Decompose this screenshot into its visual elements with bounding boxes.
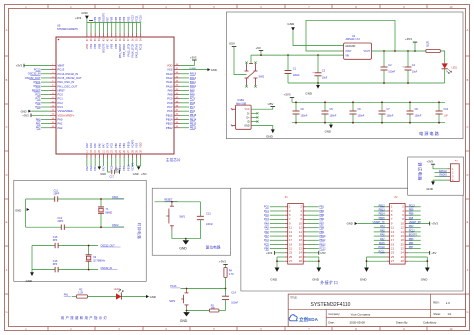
svg-text:PC1: PC1 — [58, 97, 64, 101]
svg-text:PA12: PA12 — [166, 76, 173, 80]
wire P1 pin 22 PC12 — [306, 248, 319, 250]
svg-text:GND: GND — [287, 22, 295, 26]
capacitor C15 — [54, 243, 56, 248]
svg-text:AMS1117-3.3: AMS1117-3.3 — [346, 38, 361, 41]
svg-text:8MHZ: 8MHZ — [106, 212, 113, 215]
svg-text:LED1: LED1 — [451, 67, 458, 70]
ground cap bank — [330, 123, 332, 125]
svg-text:D: D — [6, 173, 8, 177]
wire OSC2 to mcu — [41, 85, 50, 87]
svg-text:VCAP1: VCAP1 — [130, 139, 134, 148]
svg-text:GND: GND — [211, 68, 217, 72]
wire SW2 to +5V rail — [250, 55, 252, 63]
svg-text:GND: GND — [421, 278, 429, 282]
svg-text:+3V3: +3V3 — [115, 169, 121, 171]
svg-text:PB5: PB5 — [319, 214, 324, 217]
svg-text:ADJ/GND: ADJ/GND — [345, 45, 355, 48]
svg-text:PD2: PD2 — [126, 16, 130, 22]
svg-text:E: E — [467, 220, 469, 224]
svg-text:100nF: 100nF — [231, 302, 238, 305]
svg-text:32.768KHz: 32.768KHz — [93, 260, 106, 263]
wire P1 pin 7 PC3 — [270, 218, 285, 220]
wire P1 pin 6 PB5 — [306, 214, 319, 216]
crystal X2 32.768KHz — [88, 246, 90, 255]
svg-text:10uF: 10uF — [412, 71, 418, 74]
svg-text:GND: GND — [81, 11, 87, 15]
wire top pin bus — [87, 22, 141, 24]
wire P1 ground right — [306, 256, 319, 258]
svg-text:PB6: PB6 — [110, 43, 114, 48]
wire P1 pin 19 PC5 — [270, 243, 285, 245]
svg-text:VDD: VDD — [85, 44, 89, 50]
wire SWDIO net — [435, 175, 448, 177]
wire +3V3 to R4 — [225, 264, 227, 267]
svg-text:复位电路: 复位电路 — [206, 244, 221, 249]
svg-text:PA11: PA11 — [166, 80, 173, 84]
wire P1 pin 11 PA5 — [270, 227, 285, 229]
svg-text:PB7: PB7 — [106, 43, 110, 48]
svg-text:PA12: PA12 — [190, 76, 197, 80]
svg-text:A: A — [6, 28, 8, 32]
svg-text:PC7: PC7 — [167, 105, 173, 109]
svg-text:PB15: PB15 — [190, 113, 197, 117]
wire OSC1 to mcu — [41, 81, 50, 83]
svg-text:+3V3: +3V3 — [141, 174, 147, 176]
svg-text:PA13: PA13 — [190, 72, 197, 76]
usb data stubs — [251, 112, 257, 114]
svg-text:Your Company: Your Company — [351, 312, 371, 316]
svg-text:PA6: PA6 — [97, 143, 101, 148]
svg-text:6PF: 6PF — [53, 239, 58, 242]
wire P2 pin 16 BOOT0 — [408, 235, 421, 237]
wire R3 to C14 — [219, 310, 226, 312]
svg-text:PA8: PA8 — [190, 92, 195, 96]
svg-text:PA7: PA7 — [101, 166, 105, 171]
svg-text:PC3: PC3 — [35, 105, 41, 109]
svg-text:VCAP1: VCAP1 — [130, 162, 134, 171]
svg-text:1.0: 1.0 — [446, 301, 450, 305]
ground at top pin bus — [86, 19, 88, 22]
svg-text:28: 28 — [299, 259, 303, 263]
wire P1 pin 15 PA7 — [270, 235, 285, 237]
wire P2 pin 19 PA15 — [374, 243, 387, 245]
wire PB15 net — [180, 114, 189, 116]
wire OSC32_OUT to mcu — [41, 77, 50, 79]
svg-text:PH1_OSC_OUT: PH1_OSC_OUT — [58, 84, 78, 88]
wire reset net — [155, 201, 201, 203]
wire R2 to LED2 — [88, 296, 117, 298]
svg-text:PB9: PB9 — [93, 16, 97, 21]
wire LED2 to ground — [121, 296, 146, 298]
svg-text:PB4: PB4 — [118, 16, 122, 21]
wire PA11 net — [180, 81, 189, 83]
wire PC2 to mcu — [41, 102, 50, 104]
wire power bottom rail — [288, 82, 445, 84]
wire P2 pin 2 PC13 — [408, 206, 421, 208]
svg-text:RESET: RESET — [32, 88, 41, 92]
wire SW1 to bottom — [171, 231, 173, 239]
wire P1 pin 14 PB9 — [306, 231, 319, 233]
wire P2 pin 12 PD2 — [408, 227, 421, 229]
svg-text:PC12: PC12 — [139, 43, 143, 50]
capacitor C2 — [383, 51, 385, 67]
wire OSC32_IN to mcu — [41, 73, 50, 75]
svg-text:NRST: NRST — [58, 88, 66, 92]
wire PA1 to mcu — [41, 123, 50, 125]
ground power bottom rail — [317, 83, 319, 85]
svg-text:1/1: 1/1 — [448, 312, 452, 316]
svg-text:时钟电路: 时钟电路 — [137, 223, 142, 239]
svg-text:PC2: PC2 — [264, 214, 269, 217]
svg-text:GND: GND — [266, 134, 274, 138]
svg-text:BOOT0: BOOT0 — [409, 234, 418, 237]
svg-text:VDD: VDD — [139, 142, 143, 148]
svg-text:A: A — [467, 28, 469, 32]
ground P1 left — [275, 268, 280, 272]
svg-text:PB3: PB3 — [122, 16, 126, 21]
svg-text:BOOT0: BOOT0 — [101, 43, 105, 52]
svg-text:+3V3: +3V3 — [431, 222, 438, 226]
svg-text:PB14: PB14 — [190, 117, 197, 121]
wire PA9 net — [180, 89, 189, 91]
svg-text:U5V: U5V — [320, 251, 325, 255]
svg-text:100nF: 100nF — [388, 71, 395, 74]
svg-text:G: G — [466, 310, 468, 314]
svg-text:PC3: PC3 — [58, 105, 64, 109]
svg-text:PC9: PC9 — [190, 97, 196, 101]
svg-text:TITLE:: TITLE: — [290, 297, 298, 300]
svg-text:REV:: REV: — [433, 301, 439, 305]
wire P2 pin 1 PB12 — [374, 206, 387, 208]
svg-text:PB5: PB5 — [114, 16, 118, 21]
svg-text:OSC32_OUT: OSC32_OUT — [25, 76, 41, 80]
svg-text:GND: GND — [15, 208, 21, 212]
net U5V at P1 pin 24 — [306, 252, 319, 254]
wire P1 pin 16 PB10 — [306, 235, 319, 237]
svg-text:PC10: PC10 — [139, 15, 143, 22]
wire P1 pin 3 PC1 — [270, 210, 285, 212]
svg-text:PB15: PB15 — [166, 113, 173, 117]
svg-text:GND: GND — [325, 130, 331, 134]
svg-text:100nF: 100nF — [301, 115, 308, 118]
svg-text:C14: C14 — [231, 292, 236, 295]
svg-text:C10: C10 — [444, 108, 449, 111]
svg-text:用户按键和用户指示灯: 用户按键和用户指示灯 — [61, 315, 108, 320]
svg-text:PA5: PA5 — [380, 229, 385, 232]
svg-text:GND: GND — [347, 222, 353, 226]
svg-text:+3V3: +3V3 — [284, 93, 291, 97]
svg-text:GND: GND — [180, 319, 188, 323]
svg-text:PC8: PC8 — [167, 101, 173, 105]
wire P2 pin 11 PA4 — [374, 227, 387, 229]
title block frame — [288, 294, 465, 326]
regulator U2 AMS1117-3.3 — [344, 43, 372, 59]
svg-text:100nF: 100nF — [387, 115, 394, 118]
wire PA1 to R2 — [72, 296, 76, 298]
svg-text:OSC1: OSC1 — [112, 196, 119, 199]
wire U5V to SW2 — [234, 47, 247, 75]
svg-text:VBAT: VBAT — [58, 64, 65, 68]
wire PC13 to mcu — [41, 69, 50, 71]
svg-text:100nF: 100nF — [358, 115, 365, 118]
svg-text:GND: GND — [270, 278, 278, 282]
svg-text:Mini USB: Mini USB — [236, 102, 246, 105]
wire PB13 net — [180, 123, 189, 125]
svg-text:VOUT: VOUT — [345, 51, 352, 53]
wire USB GND — [251, 126, 273, 130]
svg-text:PB6: PB6 — [110, 16, 114, 21]
power +3V3 at VDD — [192, 59, 197, 61]
svg-text:PA8: PA8 — [168, 93, 173, 97]
diode LED1 — [442, 63, 448, 68]
svg-text:100: 100 — [211, 307, 216, 310]
debug section box — [408, 157, 464, 195]
svg-text:GND: GND — [360, 278, 368, 282]
power +3V3 at VBAT — [23, 64, 25, 68]
easyeda logo — [289, 315, 318, 323]
svg-text:+5V: +5V — [431, 251, 436, 255]
expansion section box — [241, 188, 463, 291]
mcu right pin stubs and numbers (pins 33-48) — [174, 65, 180, 67]
svg-text:PB8: PB8 — [97, 43, 101, 48]
svg-text:PA13: PA13 — [166, 72, 173, 76]
wire PC3 to mcu — [41, 106, 50, 108]
svg-text:PB14: PB14 — [166, 117, 173, 121]
mcu bottom pin stubs and numbers — [86, 154, 88, 158]
svg-text:调试电路: 调试电路 — [418, 162, 424, 181]
svg-text:电源电路: 电源电路 — [419, 130, 440, 137]
svg-text:VCC: VCC — [245, 108, 250, 111]
ground P2 left — [364, 268, 369, 272]
svg-text:VOUT: VOUT — [364, 51, 371, 53]
svg-text:PB8: PB8 — [97, 16, 101, 21]
wire PA2 to mcu — [41, 127, 50, 129]
ground P1 right — [316, 268, 321, 272]
svg-text:PB1: PB1 — [118, 143, 122, 148]
wire PA10 net — [180, 85, 189, 87]
wire P1 pin 12 PB8 — [306, 227, 319, 229]
svg-text:PC14-OSC32_IN: PC14-OSC32_IN — [58, 72, 79, 76]
svg-text:PC0: PC0 — [35, 92, 41, 96]
svg-text:Sheet:: Sheet: — [433, 312, 441, 316]
svg-text:PA13_JTMS: PA13_JTMS — [135, 44, 139, 58]
wire PA0 to mcu — [41, 118, 50, 120]
ground at USB — [271, 129, 275, 133]
wire P1 pin 20 PB13 — [306, 243, 319, 245]
svg-text:+3V3: +3V3 — [22, 114, 29, 118]
wire P1 pin 5 PC2 — [270, 214, 285, 216]
ground at LED2 — [146, 295, 149, 298]
wire VDD to +3V3 — [180, 60, 194, 66]
svg-text:PA9: PA9 — [168, 88, 173, 92]
wire P2 pin 14 PC12 — [408, 231, 421, 233]
reset section box — [152, 188, 231, 255]
svg-text:PA10: PA10 — [166, 84, 173, 88]
svg-text:PA2: PA2 — [58, 126, 63, 130]
wire PC9 net — [180, 98, 189, 100]
wire PA12 net — [180, 77, 189, 79]
wire P2 pin 21 PC10 — [374, 248, 387, 250]
wire VSS to GND — [180, 69, 207, 71]
svg-text:PA0: PA0 — [36, 117, 41, 121]
svg-text:PB2: PB2 — [122, 165, 126, 170]
svg-text:PC13: PC13 — [34, 68, 41, 72]
junction dots on +5V rail — [260, 54, 262, 56]
svg-text:主控芯片: 主控芯片 — [166, 157, 181, 162]
wire P2 pin 5 PB14 — [374, 214, 387, 216]
wire P2 pin 18 PB3 — [408, 239, 421, 241]
capacitor C13 — [199, 202, 201, 217]
svg-text:GND: GND — [133, 172, 139, 176]
svg-text:立创EDA: 立创EDA — [299, 316, 319, 323]
svg-text:U5: U5 — [57, 23, 61, 27]
svg-text:ID: ID — [247, 121, 250, 124]
svg-text:BOOT0: BOOT0 — [101, 12, 105, 21]
svg-text:SW3: SW3 — [169, 299, 175, 303]
diode LED2 — [116, 293, 121, 299]
capacitor C4 — [407, 51, 409, 67]
svg-text:G: G — [5, 310, 7, 314]
wire ADJ to ground — [293, 31, 344, 46]
svg-text:4.7K: 4.7K — [229, 273, 234, 276]
wire PC8 net — [180, 102, 189, 104]
wire VOUT loop — [306, 20, 395, 51]
svg-text:PC7: PC7 — [190, 105, 196, 109]
capacitor C11 — [54, 196, 56, 201]
power +5V at P2 pin 24 — [408, 252, 430, 254]
wire OSC32_OUT net — [32, 245, 55, 247]
svg-text:PA2: PA2 — [36, 126, 41, 130]
capacitor C12 — [60, 225, 62, 230]
wire P1 pin 4 PB2 — [306, 210, 319, 212]
wire P2 pin 20 PB4 — [408, 243, 421, 245]
svg-text:PC8: PC8 — [190, 101, 196, 105]
wire VBAT to +3V3 — [24, 65, 50, 67]
svg-text:10uF: 10uF — [322, 77, 328, 80]
svg-text:GND: GND — [179, 247, 187, 251]
ground at bottom pins 29-30 — [137, 165, 141, 167]
svg-text:PA14_JTCK: PA14_JTCK — [130, 44, 134, 58]
wire OSC32_IN net — [32, 269, 55, 271]
svg-text:GND: GND — [426, 187, 434, 191]
svg-text:PA9: PA9 — [190, 88, 195, 92]
wire R1 to LED1 — [440, 51, 444, 63]
svg-text:GND: GND — [100, 172, 106, 176]
wire PC7 net — [180, 106, 189, 108]
svg-text:E: E — [6, 220, 8, 224]
svg-text:PA7: PA7 — [101, 143, 105, 148]
svg-text:PC2: PC2 — [35, 101, 41, 105]
svg-text:100nF: 100nF — [293, 74, 300, 77]
svg-text:+3V3: +3V3 — [405, 37, 412, 41]
wire cap bank bottom rail — [292, 122, 445, 124]
svg-text:U5V: U5V — [229, 42, 236, 46]
svg-text:SYSTEM32F4110: SYSTEM32F4110 — [311, 302, 351, 308]
wire +3V3 output rail — [372, 50, 426, 52]
wire PA8 net — [180, 94, 189, 96]
svg-text:VSS: VSS — [135, 143, 139, 148]
connector USB1 Mini USB — [236, 105, 252, 129]
wire P2 pin 7 PB15 — [374, 218, 387, 220]
svg-text:OSC32_IN: OSC32_IN — [101, 267, 113, 270]
switch SW1 — [171, 202, 173, 206]
svg-text:PC5: PC5 — [110, 142, 114, 148]
svg-text:C17: C17 — [110, 175, 115, 178]
svg-text:GND: GND — [305, 92, 313, 96]
svg-text:PB13: PB13 — [166, 122, 173, 126]
wire OSC2 net — [26, 226, 62, 228]
svg-text:PA0: PA0 — [58, 117, 63, 121]
svg-text:20PF: 20PF — [58, 220, 64, 223]
svg-text:PA3: PA3 — [85, 166, 89, 171]
wire PB14 net — [180, 118, 189, 120]
svg-text:PA5: PA5 — [93, 166, 97, 171]
svg-text:PC11: PC11 — [135, 15, 139, 22]
svg-text:+3V3: +3V3 — [427, 160, 434, 164]
wire P2 pin 10 USART_RX to +3V3 — [408, 223, 430, 225]
wire PC0 to mcu — [41, 94, 50, 96]
svg-text:PB12: PB12 — [190, 126, 197, 130]
wire RESET to mcu — [41, 89, 50, 91]
svg-text:1.2K: 1.2K — [78, 292, 83, 295]
svg-text:PA15_JTDI: PA15_JTDI — [126, 44, 130, 57]
svg-text:27: 27 — [289, 259, 293, 263]
svg-text:Callofduty: Callofduty — [423, 321, 437, 325]
svg-text:+3V3: +3V3 — [190, 56, 197, 60]
wire P1 ground left — [277, 256, 285, 258]
svg-text:PB0: PB0 — [114, 143, 118, 148]
wire reset bottom — [172, 238, 201, 240]
capacitor C1 — [287, 55, 289, 70]
svg-text:PC2: PC2 — [58, 101, 64, 105]
svg-text:PC12: PC12 — [130, 15, 134, 22]
bottom pin wires — [86, 158, 88, 166]
svg-text:D-: D- — [247, 112, 250, 115]
svg-text:OSC1: OSC1 — [33, 80, 41, 84]
svg-text:PC6: PC6 — [167, 109, 173, 113]
wire P2 pin 23 PC11 — [374, 252, 387, 254]
wire PC6 net — [180, 110, 189, 112]
switch SW3 — [186, 289, 188, 293]
wire P2 pin 8 PA8 — [408, 218, 421, 220]
svg-text:PA1: PA1 — [36, 122, 41, 126]
ground clock circuit 2 — [30, 272, 34, 276]
wire cap bank top rail — [292, 101, 445, 103]
net U5V at USB — [271, 106, 276, 108]
svg-text:PA3: PA3 — [85, 143, 89, 148]
wire LED1 to bottom rail — [444, 69, 446, 83]
svg-text:20PF: 20PF — [54, 193, 60, 196]
svg-text:PC13: PC13 — [58, 68, 65, 72]
mcu U5 STM32F411RET6 body — [56, 37, 174, 154]
capacitor C8 — [409, 102, 411, 111]
wire P1 pin 21 PB0 — [270, 248, 285, 250]
svg-text:+3V3: +3V3 — [266, 251, 273, 255]
svg-text:SW1: SW1 — [179, 215, 185, 219]
svg-text:SW2: SW2 — [259, 74, 265, 78]
crystal Y1 8MHZ — [100, 199, 102, 207]
svg-text:PB5: PB5 — [114, 43, 118, 48]
svg-text:OSC32_IN: OSC32_IN — [28, 72, 41, 76]
mcu left pin stubs and numbers (pins 1-16) — [50, 65, 56, 67]
svg-text:PC3: PC3 — [264, 218, 269, 221]
svg-text:GND: GND — [312, 278, 320, 282]
svg-text:STM32F411RET6: STM32F411RET6 — [57, 27, 78, 31]
capacitor C5 — [324, 102, 326, 111]
svg-text:PB2: PB2 — [122, 143, 126, 148]
wire P1 pin 17 PC4 — [270, 239, 285, 241]
svg-text:28: 28 — [401, 259, 405, 263]
